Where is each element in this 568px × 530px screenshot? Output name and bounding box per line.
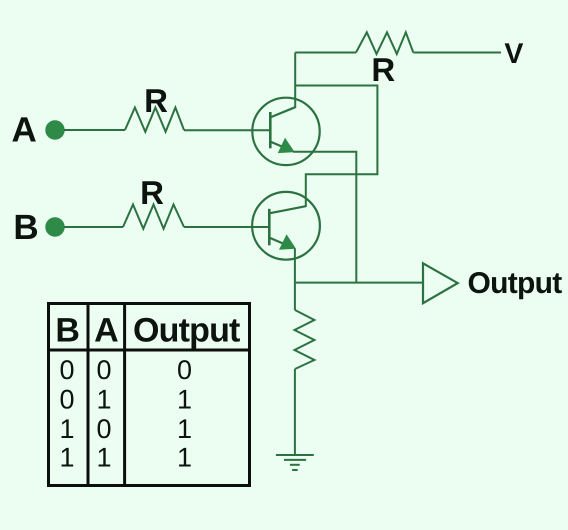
wire Q1 collector up [294,53,296,109]
resistor R1 (input A) [125,108,184,132]
svg-text:1: 1 [96,443,111,473]
wire A to R1 [64,129,125,131]
wire B to R2 [64,226,123,228]
wire R4 to ground [294,369,296,455]
svg-text:1: 1 [177,443,192,473]
wire output node [295,282,423,284]
svg-text:1: 1 [177,414,192,444]
svg-text:A: A [12,111,37,150]
svg-text:R: R [144,82,168,119]
svg-text:0: 0 [59,385,74,415]
wire R3 to V [413,52,501,54]
resistor R3 (collector load) [356,32,413,54]
svg-text:1: 1 [59,443,74,473]
svg-text:1: 1 [59,414,74,444]
wire R1 to Q1 base [184,129,270,131]
transistor Q2 [252,192,320,260]
svg-text:0: 0 [177,355,192,385]
truth table row 3 [59,414,192,444]
resistor R4 (pull-down) [295,310,315,369]
svg-text:B: B [13,208,38,247]
wire Q2 emitter down to output node [294,249,296,283]
svg-text:0: 0 [96,355,111,385]
svg-text:0: 0 [96,414,111,444]
resistor R2 (input B) [123,205,184,229]
ground [276,455,314,470]
svg-text:V: V [504,38,523,70]
truth table row 4 [59,443,192,473]
svg-text:0: 0 [59,355,74,385]
svg-text:Output: Output [133,312,240,350]
truth table frame [49,304,250,486]
wire R2 to Q2 base [184,226,269,228]
wire output node to R4 [294,283,296,310]
truth table row 1 [59,355,192,385]
output buffer triangle [423,263,458,303]
wire Q1 emitter to output node [293,152,356,283]
svg-text:1: 1 [96,385,111,415]
svg-text:R: R [140,174,164,211]
svg-text:A: A [94,312,119,350]
wire collector tie Q1 to Q2 [295,86,377,208]
wire V rail left [295,52,356,54]
svg-text:B: B [55,312,80,350]
input terminal B dot [45,217,64,236]
truth table row 2 [59,385,192,415]
svg-text:Output: Output [468,267,563,300]
svg-text:1: 1 [177,385,192,415]
svg-text:R: R [371,51,395,88]
input terminal A dot [45,120,64,139]
transistor Q1 [252,98,319,165]
